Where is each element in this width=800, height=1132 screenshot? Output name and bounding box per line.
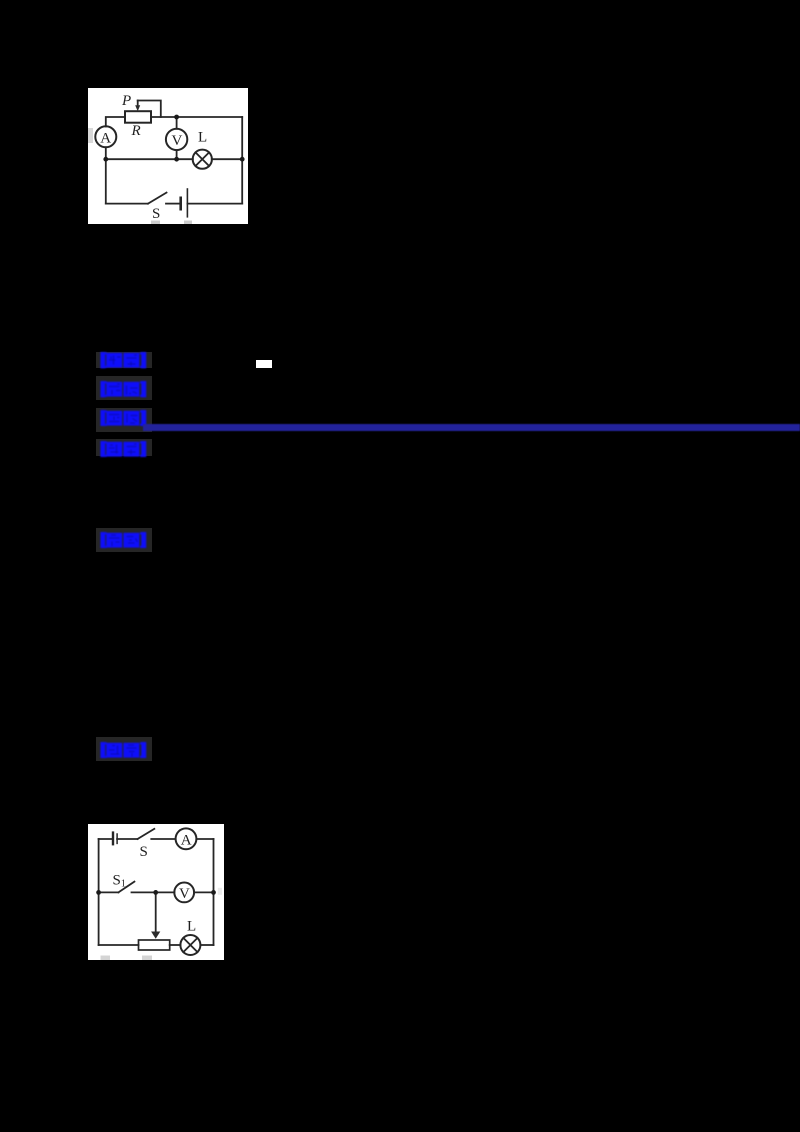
battery long thin plate [186, 189, 188, 217]
wire from ammeter branch up-left to rheostat left terminal [106, 117, 125, 127]
answer label 4 highlight band [96, 439, 152, 456]
svg-text:R: R [131, 123, 141, 139]
svg-text:S: S [152, 206, 160, 222]
slider arrowhead [135, 105, 140, 111]
switch S1 lever [118, 882, 134, 893]
wire switch to battery [166, 203, 180, 205]
battery short thick plate [179, 198, 182, 209]
node dot middle wire / right wire [240, 157, 245, 162]
lamp X stroke 2 [196, 152, 210, 166]
circuit figure 2: white panel [88, 824, 224, 960]
wire rheostat right terminal to right edge [151, 116, 242, 118]
wire switch to ammeter [151, 838, 175, 840]
ammeter A circle [95, 126, 116, 147]
svg-text:L: L [198, 130, 207, 146]
answer label 1 highlight band [96, 352, 152, 369]
slider lead down to rheostat [155, 892, 157, 932]
switch S lever [148, 193, 167, 204]
resistor rheostat body [139, 940, 170, 950]
gray smudge below S [151, 221, 160, 225]
svg-text:V: V [172, 133, 183, 149]
wire ammeter to right edge [196, 838, 213, 840]
lamp L circle [193, 150, 212, 169]
wire right vertical down [241, 117, 243, 204]
answer label 6 (blue bracketed tag) [100, 742, 147, 759]
wire rheostat to lamp [170, 944, 181, 946]
wire middle horizontal left part [106, 158, 193, 160]
node dot voltmeter / middle wire [174, 157, 179, 162]
wire left vertical [98, 839, 100, 945]
gray smudge below battery [184, 221, 192, 225]
wire right vertical [213, 839, 215, 945]
wire middle left to S1 pivot [99, 891, 119, 893]
svg-text:V: V [179, 886, 190, 902]
wire V to right wire [194, 891, 213, 893]
wire bottom left segment [106, 203, 148, 205]
lamp X stroke 2 [183, 938, 197, 952]
wire voltmeter top lead [176, 117, 178, 129]
svg-text:P: P [121, 93, 131, 109]
node dot left middle [96, 890, 101, 895]
lamp X stroke 1 [196, 152, 210, 166]
answer label 5 highlight band [96, 528, 152, 552]
svg-text:L: L [187, 919, 196, 935]
answer label 3 highlight band [96, 408, 152, 432]
lamp L circle [180, 935, 200, 955]
wire battery to switch pivot [117, 838, 137, 840]
node dot right middle [211, 890, 216, 895]
answer label 1 (blue bracketed tag) [100, 352, 147, 369]
svg-text:S1: S1 [113, 873, 126, 890]
gray nub right edge [218, 888, 222, 895]
slider arrow shaft [137, 101, 139, 107]
wire slider tap L-shaped lead [138, 101, 161, 118]
wire voltmeter bottom lead [176, 150, 178, 159]
wire middle S1 to V [132, 891, 175, 893]
voltmeter V circle [174, 883, 194, 903]
voltmeter V circle [166, 129, 187, 150]
wire battery to right corner [187, 203, 242, 205]
wire ammeter bottom to middle node [105, 147, 107, 159]
answer label 2 (blue bracketed tag) [100, 381, 147, 398]
switch S lever [138, 829, 155, 839]
wire lamp to right corner [200, 944, 213, 946]
white dash after answer label 1 [256, 360, 272, 368]
resistor R rheostat body [125, 111, 151, 123]
answer label 6 highlight band [96, 737, 152, 761]
answer label 3 (blue bracketed tag) [100, 410, 147, 427]
circuit figure 1: white panel [88, 88, 248, 224]
gray smudge bottom left [101, 956, 111, 961]
svg-text:A: A [181, 833, 192, 849]
wire bottom left segment [99, 944, 139, 946]
gray smudge bottom center [142, 956, 152, 961]
battery short plate [116, 834, 118, 843]
battery long plate [112, 833, 114, 845]
wire middle horizontal right part [212, 158, 242, 160]
svg-text:S: S [140, 844, 148, 860]
node dot middle wire / slider lead [153, 890, 158, 895]
wire top-left to battery [99, 838, 113, 840]
svg-text:A: A [100, 131, 111, 147]
wire left vertical down [105, 159, 107, 203]
answer label 4 (blue bracketed tag) [100, 441, 147, 458]
node dot A branch / middle wire [103, 157, 108, 162]
gray watermark bar left edge [88, 128, 93, 143]
answer label 5 (blue bracketed tag) [100, 532, 147, 549]
ammeter A circle [176, 828, 197, 849]
answer label 2 highlight band [96, 376, 152, 400]
slider arrowhead [151, 932, 160, 939]
lamp X stroke 1 [183, 938, 197, 952]
node dot top wire / voltmeter [174, 115, 179, 120]
blue horizontal rule [143, 424, 800, 431]
